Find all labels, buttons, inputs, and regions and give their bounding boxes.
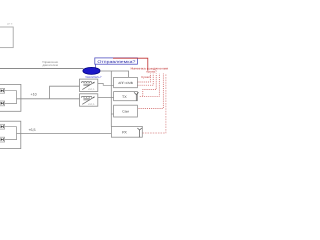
diode cell D4 [0, 137, 5, 142]
+10 rail [17, 98, 80, 100]
node: blue ellipse E1 [83, 67, 100, 74]
wire T1 to U1 [98, 83, 114, 85]
block RX [111, 126, 142, 137]
red dashed net: to U1 lower [137, 74, 153, 86]
bus: vertical wire left of block column [110, 71, 112, 127]
T1 adjust arrow [82, 82, 94, 89]
wire T2 to TX [98, 97, 114, 99]
svg-text:+10: +10 [31, 92, 37, 96]
svg-text:2x0,6: 2x0,6 [88, 88, 95, 91]
block U1 (MCU) [114, 77, 138, 87]
red wire: RX to right riser [142, 74, 166, 134]
svg-text:Кузов?: Кузов? [141, 75, 151, 79]
svg-text:дт и: дт и [7, 22, 13, 26]
wire: ellipse to MCU block top [100, 71, 129, 77]
T1 core [83, 83, 90, 85]
branch of +10 rail to T1 [50, 86, 80, 99]
diode cell D2 [0, 101, 5, 106]
svg-text:ТХ: ТХ [122, 95, 127, 99]
svg-text:2x0,6: 2x0,6 [88, 103, 95, 106]
diode cell D1 [0, 88, 5, 93]
red dashed net: to TX [140, 74, 160, 97]
transformer T2 box [80, 94, 98, 106]
svg-text:Сам: Сам [122, 110, 129, 114]
T2 adjust arrow [82, 97, 94, 104]
svg-text:кузова?: кузова? [146, 69, 157, 73]
T1 winding [81, 82, 91, 83]
wires joining D3/D4 to +6,5 rail [5, 127, 17, 140]
transformer T1 box [80, 79, 98, 91]
diode cell D3 [0, 124, 5, 129]
RX antenna [137, 128, 141, 130]
red note text [131, 66, 169, 79]
svg-text:Отправляемка?: Отправляемка? [97, 59, 136, 64]
label "Управление двигателем" on control wire [42, 60, 58, 67]
wire: motor control line to ellipse [0, 68, 84, 70]
rectifier block PS2 (outer box) [0, 121, 21, 148]
svg-text:+6,5: +6,5 [28, 128, 35, 132]
wire: decision box to ellipse (blue drop) [94, 64, 96, 68]
rectifier block PS1 (outer box) [0, 84, 21, 111]
svg-text:двигателем: двигателем [42, 63, 57, 67]
block U3 (Sam) [114, 105, 138, 117]
red annotation wire from decision box [113, 58, 148, 70]
svg-text:АПГ+СМВ: АПГ+СМВ [118, 81, 133, 85]
svg-text:РХ: РХ [122, 131, 127, 135]
T2 winding [81, 96, 91, 97]
connector J1 (top-left rectangle) [0, 27, 13, 48]
decision box "Отправляемка?" [95, 58, 138, 64]
red dashed net: to U1 upper [137, 74, 150, 83]
block U2 (TX) [114, 92, 138, 101]
T2 core [83, 98, 90, 100]
wires joining D1/D2 to +10 rail [5, 91, 17, 104]
+6,5 rail to RX [17, 132, 112, 134]
stub bus to U3 [111, 113, 113, 115]
TX antenna [134, 92, 139, 94]
red dashed net: to U3 [136, 74, 163, 109]
svg-text:Усилитель?: Усилитель? [85, 75, 102, 79]
red dashed net: mid jog [143, 74, 156, 97]
